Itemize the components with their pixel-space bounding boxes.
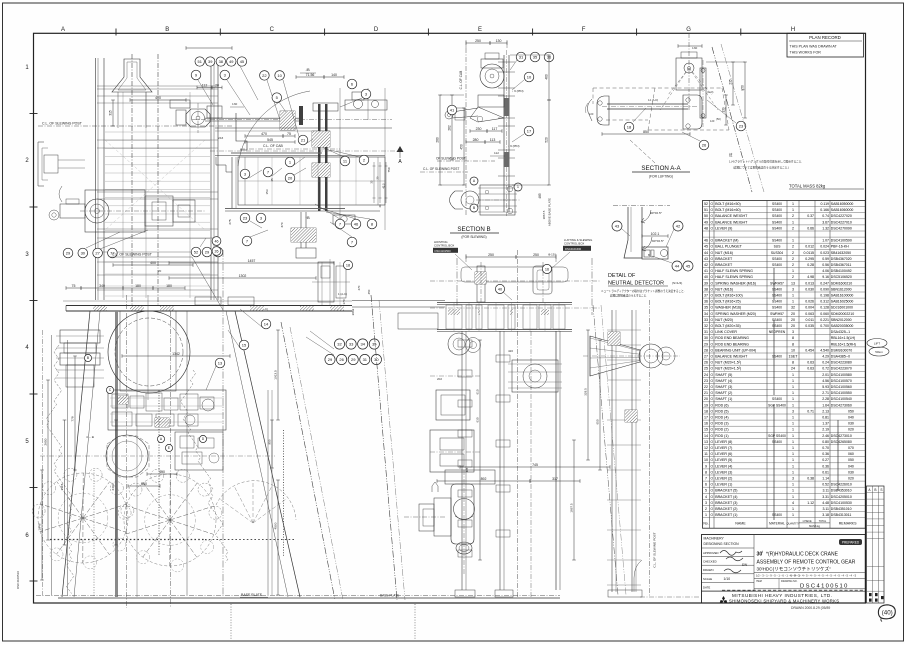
svg-text:1.64: 1.64 — [822, 403, 829, 407]
svg-text:370: 370 — [280, 222, 284, 227]
svg-text:APPROVED: APPROVED — [703, 551, 719, 555]
svg-text:16: 16 — [545, 267, 549, 271]
svg-text:ABOVE BASE PLATE: ABOVE BASE PLATE — [548, 198, 552, 226]
svg-text:SWRH57: SWRH57 — [770, 281, 784, 285]
svg-text:1: 1 — [705, 513, 707, 517]
svg-text:13: 13 — [704, 440, 708, 444]
svg-text:750: 750 — [387, 167, 391, 172]
svg-text:0.035: 0.035 — [805, 324, 814, 328]
svg-text:28: 28 — [704, 348, 708, 352]
svg-text:41: 41 — [704, 269, 708, 273]
svg-text:BRACKET (2): BRACKET (2) — [715, 507, 737, 511]
svg-text:1: 1 — [792, 208, 794, 212]
svg-text:LINK COVER: LINK COVER — [715, 330, 737, 334]
svg-text:3.18: 3.18 — [822, 513, 829, 517]
svg-text:DESIGNING SECTION: DESIGNING SECTION — [704, 542, 740, 546]
svg-text:S: S — [880, 488, 882, 492]
svg-text:1: 1 — [792, 269, 794, 273]
svg-text:24: 24 — [704, 373, 708, 377]
svg-text:26: 26 — [702, 142, 707, 147]
svg-text:F: F — [582, 27, 586, 33]
svg-text:450: 450 — [460, 144, 464, 150]
svg-text:2.46: 2.46 — [822, 434, 829, 438]
svg-text:1346: 1346 — [38, 523, 42, 530]
svg-text:(S=1/4): (S=1/4) — [672, 281, 682, 285]
svg-text:BEARING UNIT (UP-004): BEARING UNIT (UP-004) — [715, 348, 756, 352]
svg-text:SHAFT (2): SHAFT (2) — [715, 391, 732, 395]
svg-text:DSB4353010: DSB4353010 — [831, 489, 852, 493]
svg-text:C.L. OF SLEWING POST: C.L. OF SLEWING POST — [42, 122, 83, 126]
svg-text:B: B — [648, 253, 650, 257]
svg-text:75: 75 — [287, 132, 291, 136]
svg-text:450: 450 — [367, 289, 371, 294]
svg-text:SS400: SS400 — [772, 202, 782, 206]
svg-text:4500: 4500 — [274, 522, 278, 529]
svg-text:BRACKET: BRACKET — [715, 263, 733, 267]
svg-text:SS400: SS400 — [772, 318, 782, 322]
svg-text:8: 8 — [792, 342, 794, 346]
svg-text:48: 48 — [704, 226, 708, 230]
svg-text:NUT (M20×1.5²): NUT (M20×1.5²) — [715, 367, 741, 371]
svg-text:44: 44 — [675, 263, 680, 268]
svg-text:250: 250 — [475, 39, 481, 43]
svg-text:0.74: 0.74 — [822, 214, 829, 218]
svg-text:33: 33 — [349, 341, 354, 346]
svg-text:DSC4226010: DSC4226010 — [831, 483, 852, 487]
svg-text:CHECKED: CHECKED — [703, 560, 717, 564]
svg-text:DSC5106520: DSC5106520 — [831, 275, 852, 279]
svg-text:SS400: SS400 — [772, 440, 782, 444]
svg-text:(詳細については現場確認のうえ決定すること.): (詳細については現場確認のうえ決定すること.) — [733, 166, 789, 170]
svg-text:DSC4205010: DSC4205010 — [831, 495, 852, 499]
svg-text:39: 39 — [208, 59, 212, 64]
svg-text:280: 280 — [473, 138, 479, 142]
svg-text:2400: 2400 — [111, 483, 115, 490]
svg-text:10: 10 — [277, 73, 282, 78]
svg-text:0.81: 0.81 — [822, 416, 829, 420]
svg-text:C: C — [270, 27, 275, 33]
svg-text:0.090: 0.090 — [820, 287, 829, 291]
svg-text:SGP SS400: SGP SS400 — [768, 403, 786, 407]
svg-text:0.27: 0.27 — [822, 458, 829, 462]
svg-text:1.32: 1.32 — [822, 226, 829, 230]
svg-text:TOTAL MASS 82kg: TOTAL MASS 82kg — [789, 184, 826, 189]
svg-text:1: 1 — [792, 446, 794, 450]
svg-text:20: 20 — [158, 269, 162, 273]
svg-text:0.36: 0.36 — [822, 464, 829, 468]
svg-text:180: 180 — [135, 284, 141, 288]
svg-text:27: 27 — [95, 250, 100, 255]
svg-text:20: 20 — [704, 397, 708, 401]
svg-text:DSC4101500: DSC4101500 — [435, 249, 452, 253]
svg-text:1.14: 1.14 — [822, 477, 829, 481]
svg-text:(50): (50) — [716, 117, 721, 121]
svg-text:BRACKET (5): BRACKET (5) — [715, 489, 737, 493]
svg-text:LIFT: LIFT — [874, 342, 880, 346]
svg-text:1: 1 — [792, 434, 794, 438]
svg-text:0.72: 0.72 — [822, 367, 829, 371]
svg-text:51: 51 — [198, 59, 202, 64]
svg-text:DSC4223080: DSC4223080 — [831, 361, 852, 365]
svg-text:2115: 2115 — [60, 483, 64, 490]
svg-text:DSM9100070: DSM9100070 — [831, 348, 852, 352]
svg-text:1 (A-C): 1 (A-C) — [338, 292, 347, 296]
svg-text:REMARKS: REMARKS — [839, 522, 857, 526]
svg-text:BOLT (M20×35): BOLT (M20×35) — [715, 324, 741, 328]
svg-text:270: 270 — [357, 285, 361, 290]
svg-text:31: 31 — [363, 357, 368, 362]
svg-text:112: 112 — [202, 83, 208, 87]
svg-text:SPRING WASHER (M20): SPRING WASHER (M20) — [715, 312, 756, 316]
svg-text:1: 1 — [792, 416, 794, 420]
svg-text:↓B: ↓B — [305, 67, 310, 72]
svg-text:10: 10 — [527, 74, 532, 79]
svg-text:0.52: 0.52 — [822, 483, 829, 487]
svg-text:B: B — [874, 488, 876, 492]
svg-text:↓ 6 (PIN): ↓ 6 (PIN) — [508, 144, 519, 148]
svg-text:2: 2 — [792, 257, 794, 261]
svg-text:SS400: SS400 — [772, 226, 782, 230]
svg-text:1.07: 1.07 — [822, 239, 829, 243]
svg-text:↓ 6 (PIN): ↓ 6 (PIN) — [512, 89, 523, 93]
svg-text:1SET: 1SET — [789, 355, 799, 359]
svg-text:C.L. OF SLEWING POST: C.L. OF SLEWING POST — [112, 253, 153, 257]
svg-text:*(R)HYDRAULIC DECK CRANE: *(R)HYDRAULIC DECK CRANE — [766, 552, 839, 558]
svg-text:10: 10 — [791, 348, 795, 352]
svg-text:DSC4100510: DSC4100510 — [800, 583, 849, 589]
svg-text:0.70: 0.70 — [822, 446, 829, 450]
svg-text:0.011: 0.011 — [806, 318, 815, 322]
svg-text:26: 26 — [339, 357, 344, 362]
svg-text:15: 15 — [242, 342, 247, 347]
svg-text:49: 49 — [704, 220, 708, 224]
svg-text:LEVER (7): LEVER (7) — [715, 446, 732, 450]
svg-text:ROD (2): ROD (2) — [715, 428, 728, 432]
svg-text:45: 45 — [686, 263, 691, 268]
svg-text:C.L. OF SLEWING POST: C.L. OF SLEWING POST — [653, 532, 657, 567]
svg-text:0.128: 0.128 — [820, 306, 829, 310]
svg-text:QUANTITY: QUANTITY — [786, 522, 799, 526]
svg-text:0.063: 0.063 — [805, 312, 814, 316]
svg-text:SS400: SS400 — [772, 300, 782, 304]
svg-text:3: 3 — [792, 287, 794, 291]
svg-text:45: 45 — [270, 178, 274, 182]
svg-text:SUS: SUS — [774, 245, 782, 249]
svg-text:BOLT (M16×60): BOLT (M16×60) — [715, 208, 741, 212]
svg-text:SS400: SS400 — [772, 355, 782, 359]
svg-text:610: 610 — [476, 389, 480, 394]
svg-text:14 (A-D): 14 (A-D) — [648, 98, 658, 102]
svg-text:37: 37 — [704, 294, 708, 298]
svg-text:8: 8 — [792, 361, 794, 365]
svg-text:470: 470 — [261, 132, 267, 136]
svg-text:ROD (3): ROD (3) — [715, 422, 728, 426]
svg-text:29: 29 — [704, 342, 708, 346]
svg-text:HALF SLEWN SPRING: HALF SLEWN SPRING — [715, 269, 753, 273]
svg-text:34: 34 — [360, 341, 365, 346]
svg-text:0.66: 0.66 — [807, 226, 814, 230]
svg-text:ITEM: ITEM — [756, 580, 762, 583]
svg-text:0.013: 0.013 — [805, 281, 814, 285]
svg-text:SHAFT (4): SHAFT (4) — [715, 379, 732, 383]
svg-text:G: G — [686, 27, 691, 33]
svg-text:41: 41 — [450, 107, 455, 112]
svg-text:112: 112 — [494, 151, 499, 155]
svg-text:PBF-16-KH: PBF-16-KH — [831, 245, 849, 249]
svg-text:DSC4101600: DSC4101600 — [565, 247, 582, 251]
svg-text:H: H — [791, 27, 795, 33]
svg-text:4.29: 4.29 — [822, 355, 829, 359]
svg-text:CONTROL BOX: CONTROL BOX — [564, 242, 584, 246]
svg-text:B: B — [165, 27, 169, 33]
svg-text:0.012: 0.012 — [805, 245, 814, 249]
svg-text:23: 23 — [704, 379, 708, 383]
svg-text:400: 400 — [159, 470, 165, 474]
svg-text:SS400: SS400 — [772, 257, 782, 261]
svg-text:520: 520 — [545, 137, 549, 143]
svg-text:OF SLEWING POST: OF SLEWING POST — [436, 157, 466, 161]
svg-text:BALANCE WEIGHT: BALANCE WEIGHT — [715, 214, 748, 218]
svg-text:8: 8 — [792, 336, 794, 340]
svg-text:2.01: 2.01 — [822, 373, 829, 377]
svg-text:630: 630 — [476, 417, 480, 422]
svg-text:0.700: 0.700 — [820, 324, 829, 328]
svg-text:BASE PLATE: BASE PLATE — [241, 593, 263, 597]
svg-text:545: 545 — [267, 138, 273, 142]
svg-text:4.56: 4.56 — [822, 379, 829, 383]
svg-text:BALANCE WEIGHT: BALANCE WEIGHT — [715, 355, 748, 359]
svg-text:PREPARED: PREPARED — [842, 541, 860, 545]
svg-text:45: 45 — [704, 245, 708, 249]
svg-text:31: 31 — [704, 330, 708, 334]
svg-text:2: 2 — [792, 226, 794, 230]
svg-text:ニュートラルディテクターの取付はブラケット調整のうえ決定する: ニュートラルディテクターの取付はブラケット調整のうえ決定すること. — [601, 289, 685, 293]
svg-text:070: 070 — [848, 446, 854, 450]
svg-text:280: 280 — [436, 137, 440, 143]
svg-text:778: 778 — [71, 416, 75, 421]
svg-text:400: 400 — [150, 261, 156, 265]
svg-text:SUS304: SUS304 — [771, 251, 783, 255]
svg-text:4.540: 4.540 — [820, 348, 829, 352]
svg-text:(40): (40) — [882, 610, 893, 617]
svg-text:1: 1 — [517, 185, 519, 189]
svg-text:SBN2012000: SBN2012000 — [831, 318, 852, 322]
svg-text:3: 3 — [705, 501, 707, 505]
svg-text:29: 29 — [351, 357, 356, 362]
svg-text:ASSEMBLY OF REMOTE CONTROL GEA: ASSEMBLY OF REMOTE CONTROL GEAR — [757, 560, 856, 566]
svg-text:2082: 2082 — [351, 308, 355, 315]
svg-text:ROD END BEARING: ROD END BEARING — [715, 336, 749, 340]
svg-text:19: 19 — [704, 403, 708, 407]
svg-text:MATERIAL: MATERIAL — [769, 522, 785, 526]
svg-text:4: 4 — [792, 501, 794, 505]
svg-text:50ton: 50ton — [875, 350, 883, 354]
svg-text:2.13: 2.13 — [822, 409, 829, 413]
svg-text:3.11: 3.11 — [822, 507, 829, 511]
svg-text:NEUTRAL DETECTOR: NEUTRAL DETECTOR — [608, 281, 664, 287]
svg-text:130: 130 — [692, 46, 697, 50]
svg-text:25: 25 — [704, 367, 708, 371]
svg-text:9.16: 9.16 — [822, 275, 829, 279]
svg-text:460: 460 — [545, 74, 549, 80]
svg-text:17: 17 — [527, 128, 532, 133]
svg-text:340: 340 — [99, 284, 105, 288]
svg-text:DSB4367011: DSB4367011 — [831, 263, 852, 267]
svg-text:1: 1 — [792, 440, 794, 444]
svg-text:1: 1 — [792, 379, 794, 383]
svg-text:1: 1 — [792, 483, 794, 487]
svg-text:BRACKET (3): BRACKET (3) — [715, 501, 737, 505]
svg-text:11: 11 — [704, 452, 708, 456]
svg-text:3.67: 3.67 — [822, 220, 829, 224]
svg-text:WASHER (M16): WASHER (M16) — [715, 306, 741, 310]
svg-text:MACHINERY: MACHINERY — [704, 537, 725, 541]
svg-text:BOLT (M16×25): BOLT (M16×25) — [715, 300, 741, 304]
svg-text:DSC4100570: DSC4100570 — [831, 379, 852, 383]
svg-text:040: 040 — [848, 464, 854, 468]
svg-text:0.221: 0.221 — [820, 318, 829, 322]
svg-text:DSC4100530: DSC4100530 — [831, 501, 852, 505]
svg-text:33: 33 — [704, 318, 708, 322]
svg-text:SS400: SS400 — [772, 294, 782, 298]
svg-text:φ50: φ50 — [741, 85, 745, 91]
svg-text:42.5: 42.5 — [382, 183, 386, 189]
svg-text:(A-D): (A-D) — [707, 90, 714, 94]
svg-text:SS400: SS400 — [772, 263, 782, 267]
svg-text:LEVER (2): LEVER (2) — [715, 477, 732, 481]
svg-text:1: 1 — [792, 428, 794, 432]
svg-text:ROD (4): ROD (4) — [715, 416, 728, 420]
svg-text:45: 45 — [240, 59, 244, 64]
svg-text:52: 52 — [704, 202, 708, 206]
svg-text:1913.5: 1913.5 — [274, 370, 278, 380]
svg-text:050: 050 — [848, 458, 854, 462]
svg-text:0.023: 0.023 — [820, 251, 829, 255]
svg-text:22: 22 — [262, 73, 267, 78]
svg-text:THIS WORKS FOR: THIS WORKS FOR — [790, 51, 822, 55]
svg-text:040: 040 — [848, 416, 854, 420]
svg-text:34: 34 — [704, 312, 708, 316]
svg-text:3.31: 3.31 — [822, 495, 829, 499]
svg-text:1: 1 — [792, 239, 794, 243]
svg-text:0.36: 0.36 — [822, 452, 829, 456]
svg-text:130: 130 — [496, 39, 502, 43]
svg-text:SHAFT (5): SHAFT (5) — [715, 373, 732, 377]
svg-text:MASS kg: MASS kg — [809, 524, 820, 528]
svg-text:↑B: ↑B — [305, 215, 310, 220]
svg-text:1: 1 — [792, 220, 794, 224]
svg-text:4: 4 — [705, 495, 707, 499]
svg-text:0.312: 0.312 — [820, 300, 829, 304]
svg-text:0.63: 0.63 — [807, 367, 814, 371]
svg-text:9: 9 — [705, 464, 707, 468]
svg-text:SDJ16001000: SDJ16001000 — [831, 306, 853, 310]
svg-text:LEVER (9): LEVER (9) — [715, 226, 732, 230]
svg-text:NUT (M16): NUT (M16) — [715, 251, 733, 255]
svg-text:SAB16050000: SAB16050000 — [831, 202, 854, 206]
svg-text:10: 10 — [704, 458, 708, 462]
svg-text:LEVER (6): LEVER (6) — [715, 452, 732, 456]
svg-text:850: 850 — [643, 130, 649, 134]
svg-text:SHAFT (1): SHAFT (1) — [715, 397, 732, 401]
svg-text:0.030: 0.030 — [805, 287, 814, 291]
svg-text:BRACKET (M): BRACKET (M) — [715, 239, 738, 243]
svg-text:A: A — [61, 27, 65, 33]
svg-text:SCALE: SCALE — [703, 577, 712, 581]
svg-text:1.(4)ブラケットハアングルの取付位置を示して図示すること: 1.(4)ブラケットハアングルの取付位置を示して図示すること. — [729, 160, 803, 164]
svg-text:DSC4100590: DSC4100590 — [831, 239, 852, 243]
svg-text:SS400: SS400 — [772, 306, 782, 310]
svg-text:4.48: 4.48 — [822, 501, 829, 505]
svg-text:NUT (M20): NUT (M20) — [715, 318, 733, 322]
svg-text:DSA4325--1: DSA4325--1 — [831, 330, 850, 334]
svg-text:BRACKET: BRACKET — [715, 257, 733, 261]
svg-text:46: 46 — [215, 239, 219, 243]
svg-text:2: 2 — [792, 275, 794, 279]
svg-text:18: 18 — [704, 409, 708, 413]
svg-text:30: 30 — [374, 357, 379, 362]
svg-text:LEVER (8): LEVER (8) — [715, 440, 732, 444]
svg-text:1867.5: 1867.5 — [542, 210, 546, 219]
svg-text:⊕ 130: ⊕ 130 — [548, 253, 556, 257]
svg-text:2.71: 2.71 — [822, 391, 829, 395]
svg-text:180: 180 — [166, 284, 172, 288]
svg-text:100: 100 — [589, 112, 594, 116]
svg-text:LEVER (1): LEVER (1) — [715, 483, 732, 487]
svg-text:315: 315 — [109, 110, 113, 116]
svg-text:3.11: 3.11 — [822, 489, 829, 493]
svg-text:ROD END BEARING: ROD END BEARING — [715, 342, 749, 346]
svg-text:26: 26 — [215, 249, 219, 253]
svg-text:SS400: SS400 — [772, 208, 782, 212]
svg-text:1/10: 1/10 — [724, 577, 731, 581]
svg-text:HALF SLEWN SPRING: HALF SLEWN SPRING — [715, 275, 753, 279]
svg-text:BALANCE WEIGHT: BALANCE WEIGHT — [715, 220, 748, 224]
svg-text:22: 22 — [704, 385, 708, 389]
svg-text:NUT (M16): NUT (M16) — [715, 287, 733, 291]
svg-text:20: 20 — [215, 83, 219, 87]
svg-text:DSC4100560: DSC4100560 — [831, 385, 852, 389]
svg-text:0.454: 0.454 — [805, 348, 814, 352]
svg-text:NUT (M20×1.5²): NUT (M20×1.5²) — [715, 361, 741, 365]
svg-text:1: 1 — [792, 464, 794, 468]
svg-text:46: 46 — [704, 239, 708, 243]
svg-text:DSC4100580: DSC4100580 — [831, 373, 852, 377]
svg-text:0.63: 0.63 — [807, 361, 814, 365]
svg-text:0.24: 0.24 — [822, 361, 829, 365]
svg-text:0.80: 0.80 — [822, 440, 829, 444]
svg-text:1: 1 — [792, 403, 794, 407]
svg-text:SS400: SS400 — [772, 220, 782, 224]
svg-text:29: 29 — [205, 249, 210, 254]
svg-text:39: 39 — [704, 281, 708, 285]
svg-text:420: 420 — [508, 349, 513, 353]
svg-text:2: 2 — [792, 214, 794, 218]
svg-text:SS400: SS400 — [772, 239, 782, 243]
svg-text:1: 1 — [792, 300, 794, 304]
svg-text:18: 18 — [346, 263, 350, 267]
svg-text:DSB4100492: DSB4100492 — [831, 269, 852, 273]
svg-text:44: 44 — [704, 251, 708, 255]
svg-text:23: 23 — [739, 123, 744, 128]
svg-text:12: 12 — [704, 446, 708, 450]
svg-text:030: 030 — [848, 470, 854, 474]
svg-text:1342: 1342 — [172, 352, 180, 356]
svg-text:1: 1 — [792, 385, 794, 389]
svg-text:1: 1 — [792, 470, 794, 474]
svg-text:B: B — [87, 356, 89, 360]
svg-text:SHIMONOSEKI SHIPYARD & MACHINE: SHIMONOSEKI SHIPYARD & MACHINERY WORKS — [729, 598, 839, 603]
